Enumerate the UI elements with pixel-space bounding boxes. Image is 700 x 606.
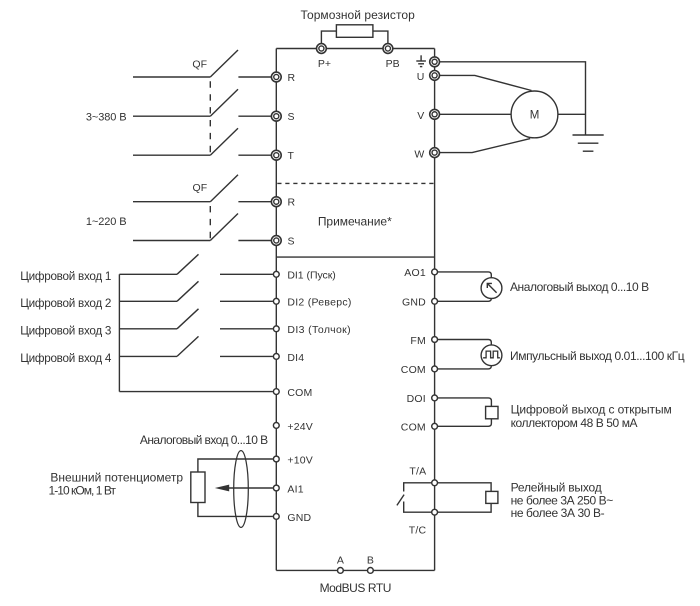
svg-text:Цифровой вход 3: Цифровой вход 3 bbox=[20, 324, 111, 337]
svg-text:W: W bbox=[414, 148, 424, 160]
svg-text:Импульсный выход 0.01...100 кГ: Импульсный выход 0.01...100 кГц bbox=[510, 349, 685, 363]
svg-text:Релейный выход: Релейный выход bbox=[511, 480, 602, 494]
svg-text:AO1: AO1 bbox=[404, 267, 426, 279]
svg-text:1~220 В: 1~220 В bbox=[86, 216, 127, 228]
svg-text:Примечание*: Примечание* bbox=[318, 215, 392, 229]
svg-text:V: V bbox=[417, 110, 424, 122]
svg-text:S: S bbox=[288, 111, 295, 123]
svg-text:1-10 кОм, 1 Вт: 1-10 кОм, 1 Вт bbox=[49, 484, 117, 498]
svg-text:DOI: DOI bbox=[407, 393, 426, 405]
svg-text:U: U bbox=[417, 71, 425, 83]
svg-text:QF: QF bbox=[192, 59, 207, 71]
svg-text:DI1 (Пуск): DI1 (Пуск) bbox=[287, 270, 335, 282]
svg-text:A: A bbox=[337, 554, 344, 566]
svg-text:COM: COM bbox=[401, 422, 426, 434]
svg-text:T: T bbox=[288, 150, 295, 162]
svg-text:Аналоговый выход 0...10 В: Аналоговый выход 0...10 В bbox=[510, 280, 649, 294]
svg-text:Тормозной резистор: Тормозной резистор bbox=[301, 8, 416, 22]
svg-text:ModBUS RTU: ModBUS RTU bbox=[320, 581, 391, 595]
svg-text:P+: P+ bbox=[318, 58, 331, 70]
svg-text:GND: GND bbox=[287, 512, 311, 524]
svg-text:3~380 В: 3~380 В bbox=[86, 112, 127, 124]
svg-text:S: S bbox=[288, 236, 295, 248]
svg-text:Цифровой вход 2: Цифровой вход 2 bbox=[20, 297, 111, 310]
svg-text:не более 3А 30 В-: не более 3А 30 В- bbox=[511, 506, 605, 520]
svg-text:QF: QF bbox=[193, 182, 208, 194]
svg-text:M: M bbox=[530, 110, 540, 122]
svg-text:DI3 (Толчок): DI3 (Толчок) bbox=[287, 324, 351, 336]
svg-text:+24V: +24V bbox=[287, 421, 313, 433]
svg-text:Цифровой вход 4: Цифровой вход 4 bbox=[20, 352, 112, 365]
svg-text:R: R bbox=[288, 72, 296, 84]
svg-text:T/C: T/C bbox=[409, 525, 427, 537]
svg-text:T/A: T/A bbox=[409, 465, 426, 477]
svg-text:Цифровой выход с открытым: Цифровой выход с открытым bbox=[511, 403, 672, 417]
svg-text:Цифровой вход 1: Цифровой вход 1 bbox=[20, 270, 111, 283]
svg-text:DI2 (Реверс): DI2 (Реверс) bbox=[287, 297, 351, 309]
svg-text:FM: FM bbox=[410, 335, 426, 347]
svg-text:R: R bbox=[288, 197, 296, 209]
svg-text:B: B bbox=[367, 554, 374, 566]
svg-text:COM: COM bbox=[287, 387, 312, 399]
svg-text:коллектором 48 В 50 мА: коллектором 48 В 50 мА bbox=[511, 416, 638, 430]
svg-text:Внешний потенциометр: Внешний потенциометр bbox=[50, 470, 183, 484]
svg-text:Аналоговый вход 0...10 В: Аналоговый вход 0...10 В bbox=[140, 433, 268, 447]
svg-text:DI4: DI4 bbox=[287, 352, 304, 364]
svg-text:AI1: AI1 bbox=[287, 483, 303, 495]
svg-text:GND: GND bbox=[402, 297, 426, 309]
svg-text:COM: COM bbox=[401, 364, 426, 376]
svg-text:+10V: +10V bbox=[287, 454, 313, 466]
svg-text:PB: PB bbox=[386, 58, 400, 70]
